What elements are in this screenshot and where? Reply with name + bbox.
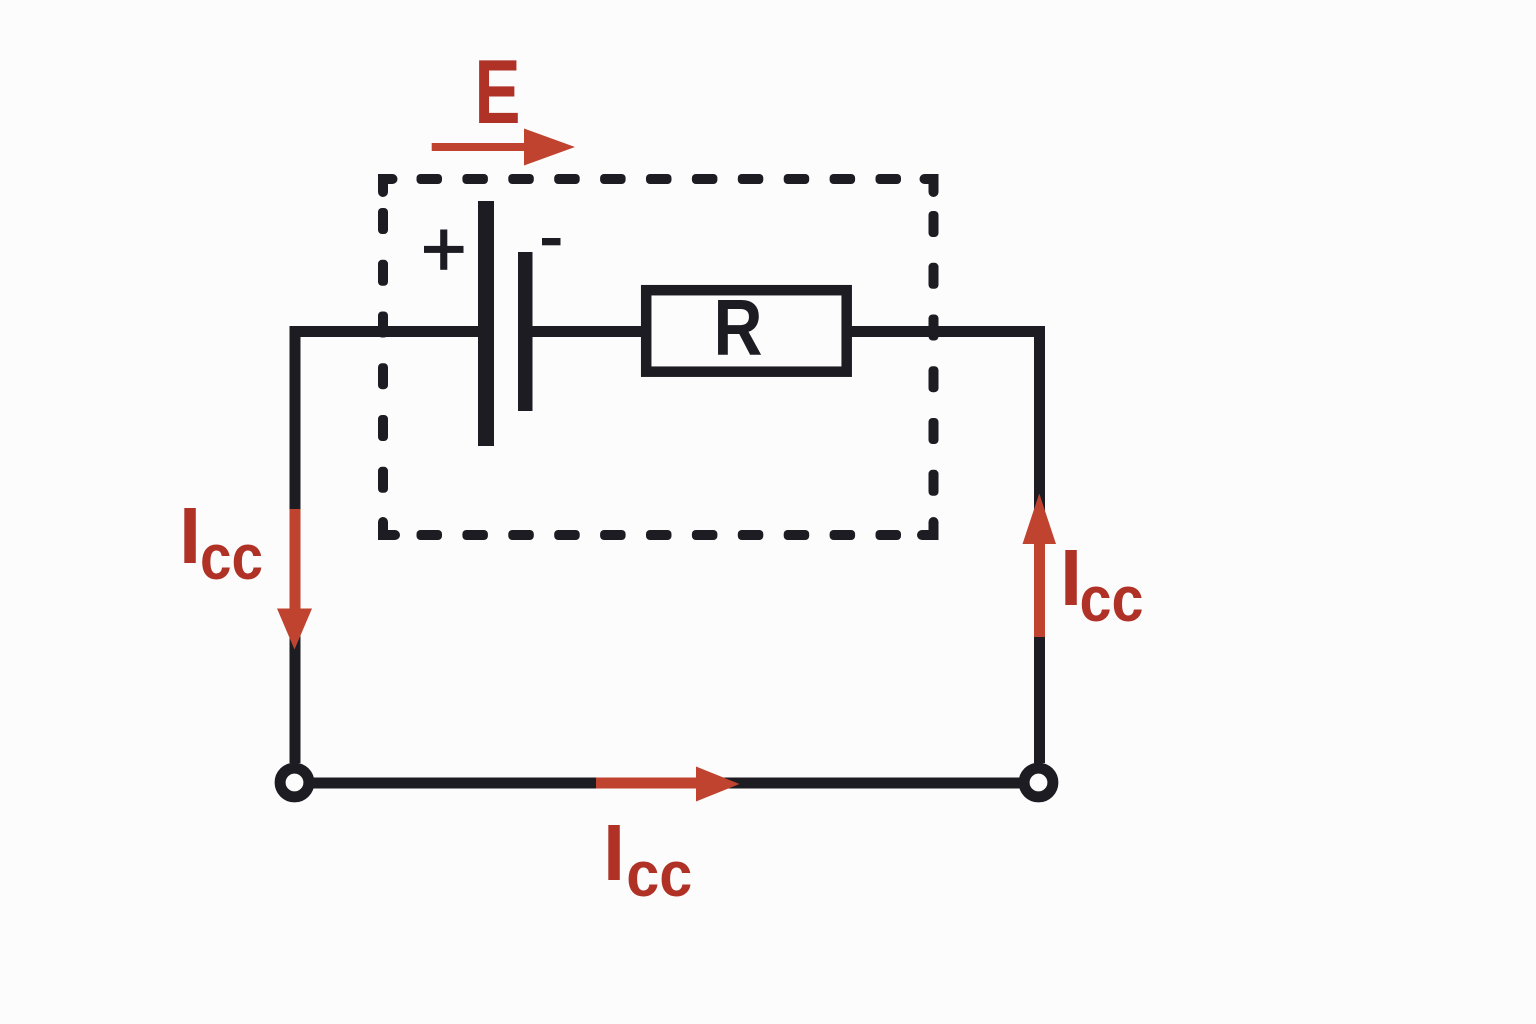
svg-text:R: R	[714, 283, 763, 372]
wire battery to resistor	[530, 326, 646, 337]
svg-text:cc: cc	[626, 838, 692, 910]
label Icc right	[1060, 533, 1144, 635]
current arrow Icc bottom (right)	[596, 767, 740, 802]
label Icc bottom	[603, 808, 692, 910]
current arrow Icc right (up)	[1023, 494, 1057, 638]
terminal node right	[1024, 768, 1053, 797]
svg-text:cc: cc	[200, 521, 263, 593]
svg-text:I: I	[179, 491, 201, 580]
wire bottom horizontal	[295, 778, 1040, 789]
label Icc left	[179, 491, 263, 593]
battery positive plate (long)	[478, 201, 494, 446]
terminal node left	[280, 768, 309, 797]
battery negative plate (short)	[518, 252, 533, 411]
arrow for E (pointing right)	[432, 129, 575, 166]
wire right vertical	[1034, 326, 1045, 763]
svg-text:cc: cc	[1080, 563, 1144, 635]
resistor R box	[646, 290, 847, 372]
battery plus sign	[424, 230, 464, 270]
wire left vertical	[290, 326, 301, 763]
svg-text:E: E	[475, 42, 521, 143]
battery minus sign	[542, 238, 561, 245]
wire resistor to right corner	[848, 326, 1045, 337]
current arrow Icc left (down)	[277, 509, 312, 650]
dashed enclosure box around source	[378, 174, 939, 540]
svg-text:I: I	[603, 808, 625, 897]
wire top-left horizontal	[290, 326, 480, 337]
